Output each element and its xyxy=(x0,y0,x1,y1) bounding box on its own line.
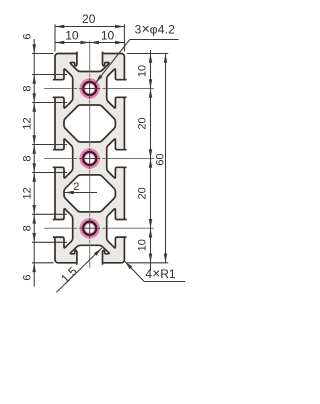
hole 2 pink highlight xyxy=(80,148,100,168)
svg-text:6: 6 xyxy=(21,274,33,280)
right T-slot cavity 2 xyxy=(107,139,127,178)
hole 3 crosshair xyxy=(79,227,100,229)
svg-text:4×R1: 4×R1 xyxy=(145,265,176,281)
dimension line 20 (top) xyxy=(55,26,124,28)
leader line 1.5 (wall thickness) xyxy=(57,248,102,292)
svg-text:10: 10 xyxy=(137,239,149,251)
extension line left slot edge 2 xyxy=(32,102,67,104)
extension line right top edge xyxy=(127,53,168,55)
profile body outline 20x60 xyxy=(55,54,124,263)
leader line 3xphi4.2 xyxy=(95,40,129,84)
hole 2 crosshair xyxy=(79,158,100,160)
hole 1 pink inner fill xyxy=(85,84,94,93)
extension line left slot edge 3 xyxy=(32,144,67,146)
top T-slot cavity xyxy=(70,52,109,72)
junction octagon cavity 2 xyxy=(64,175,115,212)
svg-text:1.5: 1.5 xyxy=(58,264,80,286)
hole 2 horizontal centerline xyxy=(44,158,72,160)
dimension line 10-10 (top) xyxy=(55,42,124,44)
extension line left slot edge 1 xyxy=(32,74,67,76)
hole 1 crosshair xyxy=(79,88,100,90)
dimension chain line left xyxy=(33,39,35,287)
hole 3 bore phi4.2 xyxy=(83,222,96,235)
extension line left slot edge 6 xyxy=(32,241,67,243)
svg-text:60: 60 xyxy=(154,153,166,165)
dimension line 2 (web thickness) xyxy=(65,192,98,194)
svg-text:10: 10 xyxy=(137,65,149,77)
extension line left slot edge 5 xyxy=(32,213,67,215)
extension line left bottom edge xyxy=(32,262,54,264)
hole 1 horizontal centerline xyxy=(44,88,72,90)
hole 3 pink highlight xyxy=(80,218,100,238)
left T-slot cavity 2 xyxy=(53,139,73,178)
svg-text:6: 6 xyxy=(21,33,33,39)
dimension chain line right xyxy=(150,50,152,271)
svg-text:20: 20 xyxy=(137,117,149,129)
svg-text:8: 8 xyxy=(21,85,33,91)
extension line right bottom edge xyxy=(127,262,168,264)
extension line left slot edge 4 xyxy=(32,172,67,174)
extension line top-right corner xyxy=(123,24,125,51)
right chain arrows xyxy=(149,54,153,63)
svg-text:8: 8 xyxy=(21,155,33,161)
hole 3 horizontal centerline xyxy=(44,227,72,229)
vertical centerline xyxy=(89,41,91,72)
left T-slot cavity 1 xyxy=(53,69,73,108)
right T-slot cavity 3 xyxy=(107,209,127,248)
svg-text:12: 12 xyxy=(21,187,33,199)
hole 1 bore phi4.2 xyxy=(83,82,96,95)
hole 2 pink inner fill xyxy=(85,154,94,163)
svg-text:20: 20 xyxy=(137,187,149,199)
hole 3 pink inner fill xyxy=(85,224,94,233)
hole 2 bore phi4.2 xyxy=(83,152,96,165)
svg-text:20: 20 xyxy=(82,12,96,26)
svg-text:10: 10 xyxy=(65,29,79,43)
hole 1 pink highlight xyxy=(80,78,100,98)
extension line left top edge xyxy=(32,53,54,55)
bottom T-slot cavity xyxy=(70,245,109,264)
extension line top-left corner xyxy=(54,24,56,51)
svg-text:10: 10 xyxy=(101,29,115,43)
svg-text:8: 8 xyxy=(21,225,33,231)
right T-slot cavity 1 xyxy=(107,69,127,108)
dimension line 60 xyxy=(165,54,167,263)
junction octagon cavity 1 xyxy=(64,105,115,142)
leader line 4xR1 xyxy=(125,261,145,281)
svg-text:3×φ4.2: 3×φ4.2 xyxy=(135,21,176,37)
left T-slot cavity 3 xyxy=(53,209,73,248)
svg-text:12: 12 xyxy=(21,117,33,129)
svg-text:2: 2 xyxy=(73,181,79,193)
left chain arrows xyxy=(32,44,36,53)
